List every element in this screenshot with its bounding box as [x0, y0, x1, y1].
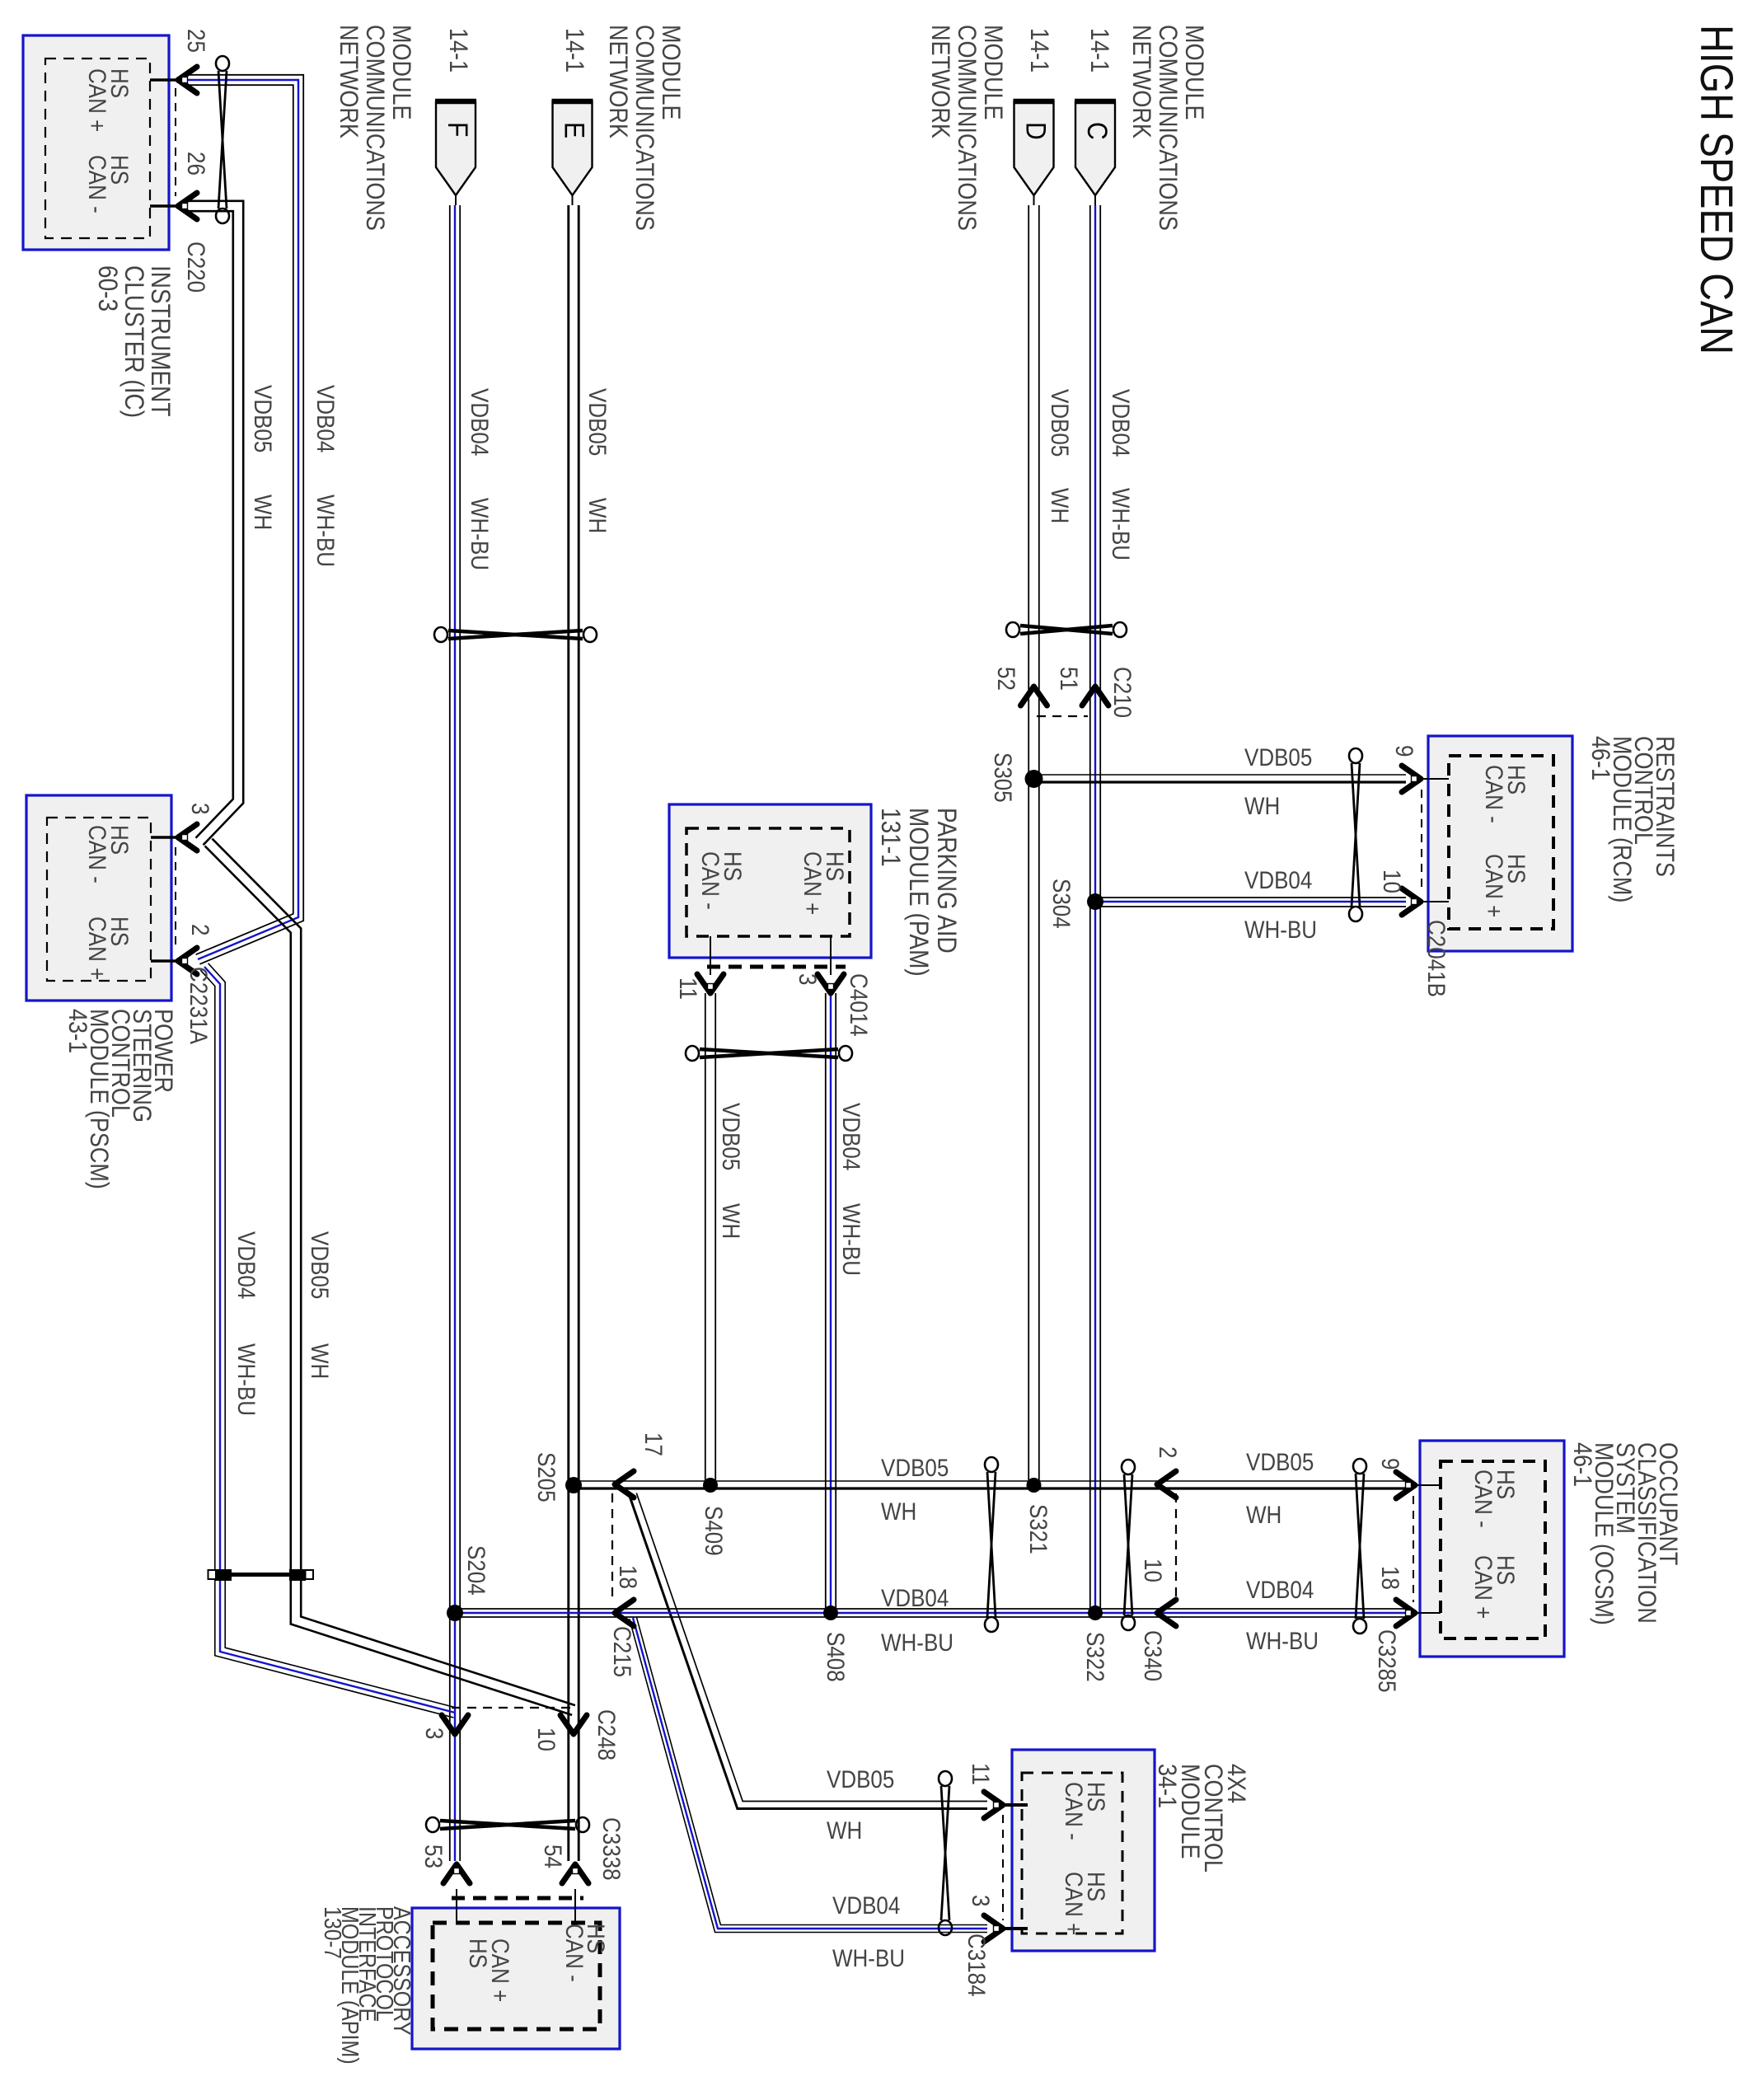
svg-text:C2231A: C2231A [185, 967, 213, 1044]
svg-text:3: 3 [187, 803, 214, 814]
svg-text:WH-BU: WH-BU [838, 1203, 865, 1276]
svg-text:VDB04: VDB04 [312, 385, 340, 452]
svg-text:D: D [1020, 122, 1052, 140]
svg-text:C3285: C3285 [1374, 1629, 1401, 1693]
svg-text:C220: C220 [183, 241, 210, 293]
svg-text:46-1: 46-1 [1568, 1442, 1596, 1487]
svg-text:14-1: 14-1 [560, 28, 588, 73]
svg-text:C4014: C4014 [846, 973, 873, 1037]
svg-text:E: E [559, 122, 590, 138]
svg-text:MODULE: MODULE [979, 25, 1007, 120]
svg-text:14-1: 14-1 [1085, 28, 1113, 73]
svg-text:53: 53 [420, 1845, 447, 1868]
svg-text:NETWORK: NETWORK [604, 25, 632, 138]
svg-text:VDB05: VDB05 [1246, 1448, 1314, 1475]
svg-text:CAN +: CAN + [1470, 1555, 1497, 1619]
svg-text:C210: C210 [1109, 667, 1136, 718]
svg-text:WH-BU: WH-BU [233, 1343, 260, 1416]
svg-text:11: 11 [675, 977, 702, 1000]
svg-text:PARKING AID: PARKING AID [932, 808, 961, 954]
svg-text:43-1: 43-1 [63, 1009, 91, 1053]
svg-text:NETWORK: NETWORK [1127, 25, 1155, 138]
svg-text:WH: WH [250, 495, 277, 530]
svg-text:S408: S408 [822, 1632, 850, 1682]
svg-text:C3338: C3338 [598, 1817, 625, 1881]
svg-text:11: 11 [968, 1763, 995, 1785]
svg-text:C248: C248 [593, 1709, 621, 1760]
svg-text:C215: C215 [609, 1626, 636, 1677]
svg-text:60-3: 60-3 [93, 265, 122, 312]
svg-text:17: 17 [640, 1432, 668, 1456]
svg-text:3: 3 [794, 973, 822, 985]
svg-text:34-1: 34-1 [1153, 1764, 1181, 1808]
svg-text:WH-BU: WH-BU [312, 495, 340, 567]
svg-text:46-1: 46-1 [1586, 736, 1614, 780]
svg-text:MODULE: MODULE [657, 25, 685, 120]
svg-text:WH-BU: WH-BU [1246, 1627, 1319, 1654]
svg-text:WH-BU: WH-BU [1108, 488, 1135, 560]
svg-text:WH: WH [827, 1816, 862, 1844]
svg-text:CAN +: CAN + [84, 68, 111, 132]
svg-text:54: 54 [540, 1845, 567, 1868]
svg-text:NETWORK: NETWORK [335, 25, 363, 138]
svg-text:S304: S304 [1048, 879, 1075, 929]
svg-text:10: 10 [533, 1727, 560, 1751]
svg-text:VDB04: VDB04 [1246, 1576, 1314, 1603]
svg-text:CLUSTER (IC): CLUSTER (IC) [119, 265, 148, 418]
svg-text:VDB04: VDB04 [838, 1103, 865, 1170]
svg-text:S322: S322 [1082, 1632, 1109, 1682]
svg-text:VDB05: VDB05 [881, 1454, 949, 1481]
svg-text:25: 25 [183, 29, 210, 53]
svg-text:S321: S321 [1025, 1504, 1052, 1554]
svg-text:WH: WH [584, 498, 611, 533]
svg-text:26: 26 [183, 152, 210, 176]
svg-text:WH-BU: WH-BU [466, 498, 494, 570]
svg-text:CAN +: CAN + [799, 851, 827, 915]
svg-text:9: 9 [1377, 1458, 1404, 1470]
svg-text:CAN -: CAN - [1061, 1782, 1088, 1840]
svg-text:WH: WH [881, 1498, 916, 1525]
svg-text:VDB04: VDB04 [233, 1231, 260, 1299]
svg-text:VDB05: VDB05 [250, 385, 277, 452]
svg-text:WH: WH [718, 1203, 745, 1239]
svg-text:WH: WH [1244, 792, 1280, 819]
svg-text:CAN +: CAN + [487, 1938, 514, 2002]
svg-text:131-1: 131-1 [876, 808, 905, 867]
svg-text:CAN +: CAN + [1481, 854, 1508, 917]
svg-text:VDB05: VDB05 [718, 1103, 745, 1170]
svg-text:WH-BU: WH-BU [832, 1944, 905, 1971]
svg-text:CAN -: CAN - [1481, 765, 1508, 823]
svg-text:9: 9 [1391, 745, 1418, 757]
svg-text:VDB05: VDB05 [584, 388, 611, 456]
svg-text:130-7: 130-7 [320, 1906, 346, 1959]
svg-text:CAN -: CAN - [84, 155, 111, 213]
svg-text:52: 52 [993, 667, 1020, 691]
svg-text:MODULE: MODULE [1180, 25, 1208, 120]
svg-text:C340: C340 [1140, 1630, 1167, 1681]
svg-text:WH: WH [1246, 1501, 1281, 1528]
svg-text:3: 3 [968, 1895, 995, 1906]
svg-text:18: 18 [1377, 1566, 1404, 1590]
svg-text:VDB04: VDB04 [832, 1891, 900, 1919]
svg-text:MODULE (PAM): MODULE (PAM) [904, 808, 933, 977]
svg-text:VDB04: VDB04 [466, 388, 494, 456]
svg-text:2: 2 [1155, 1446, 1182, 1458]
svg-text:WH-BU: WH-BU [881, 1629, 953, 1656]
svg-text:NETWORK: NETWORK [926, 25, 954, 138]
svg-text:CAN -: CAN - [561, 1924, 588, 1982]
svg-text:VDB04: VDB04 [1244, 866, 1312, 893]
svg-text:14-1: 14-1 [1025, 28, 1053, 73]
svg-text:MODULE: MODULE [387, 25, 415, 120]
svg-text:COMMUNICATIONS: COMMUNICATIONS [953, 25, 981, 231]
svg-text:HIGH SPEED CAN: HIGH SPEED CAN [1691, 25, 1743, 354]
svg-text:14-1: 14-1 [444, 28, 472, 73]
svg-text:51: 51 [1056, 667, 1083, 691]
svg-text:INSTRUMENT: INSTRUMENT [146, 265, 175, 416]
svg-text:CAN -: CAN - [1470, 1470, 1497, 1528]
svg-text:S204: S204 [463, 1545, 490, 1596]
svg-text:COMMUNICATIONS: COMMUNICATIONS [361, 25, 389, 231]
svg-text:WH: WH [1047, 488, 1074, 523]
svg-text:C3184: C3184 [963, 1934, 991, 1997]
svg-text:S205: S205 [533, 1452, 560, 1502]
svg-text:VDB05: VDB05 [1244, 743, 1312, 771]
svg-text:S305: S305 [990, 752, 1017, 803]
svg-text:10: 10 [1140, 1559, 1167, 1582]
svg-text:18: 18 [615, 1565, 642, 1589]
svg-text:CAN -: CAN - [697, 851, 724, 910]
svg-text:VDB05: VDB05 [1047, 389, 1074, 457]
svg-text:VDB05: VDB05 [827, 1765, 894, 1793]
svg-text:COMMUNICATIONS: COMMUNICATIONS [1154, 25, 1182, 231]
svg-text:C: C [1082, 122, 1113, 140]
svg-text:C2041B: C2041B [1423, 920, 1450, 997]
svg-text:3: 3 [421, 1727, 448, 1739]
svg-text:CAN -: CAN - [84, 825, 111, 884]
svg-text:WH: WH [307, 1343, 334, 1379]
svg-text:10: 10 [1379, 870, 1406, 893]
svg-text:CAN +: CAN + [1061, 1872, 1088, 1935]
svg-text:S409: S409 [700, 1506, 728, 1556]
svg-text:2: 2 [187, 924, 214, 935]
svg-text:VDB04: VDB04 [881, 1584, 949, 1611]
svg-text:CAN +: CAN + [84, 916, 111, 980]
svg-text:VDB05: VDB05 [307, 1231, 334, 1299]
svg-text:F: F [443, 122, 474, 137]
svg-text:COMMUNICATIONS: COMMUNICATIONS [630, 25, 658, 231]
svg-text:WH-BU: WH-BU [1244, 916, 1317, 943]
svg-text:VDB04: VDB04 [1108, 389, 1135, 457]
